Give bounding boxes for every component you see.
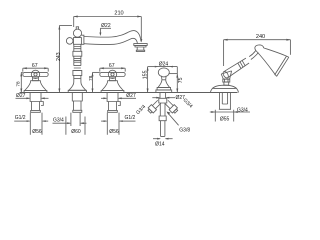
handle unit 1 : dimension 78 <box>16 72 23 92</box>
diverter dimension 75 <box>169 67 184 93</box>
handle unit 1 : shank below deck <box>30 93 43 113</box>
deck line <box>20 92 238 94</box>
spout column base <box>68 82 86 93</box>
svg-text:240: 240 <box>256 34 265 40</box>
handle unit 1 : cross handle <box>23 70 48 78</box>
spout column finial <box>73 27 81 38</box>
spout tube <box>81 31 141 45</box>
diverter bottom pipe upper <box>160 103 165 116</box>
handle unit 1 : dimension Ø56 <box>30 113 42 136</box>
diverter dimension Ø24 <box>155 61 178 67</box>
handle unit 2 : shank below deck <box>107 93 120 113</box>
svg-text:67: 67 <box>32 63 38 69</box>
svg-text:Ø56: Ø56 <box>32 129 42 135</box>
svg-text:G3/4: G3/4 <box>237 107 248 113</box>
handle unit 2 : dimension Ø27 <box>101 93 136 99</box>
svg-text:155: 155 <box>143 70 149 79</box>
handle unit 1 : escutcheon bell <box>24 78 47 93</box>
svg-text:Ø55: Ø55 <box>220 116 230 122</box>
diverter knob <box>156 68 172 93</box>
diverter bottom pipe <box>161 121 165 137</box>
dimension Ø22 (spout tube) <box>99 23 111 36</box>
svg-text:67: 67 <box>109 63 115 69</box>
svg-text:78: 78 <box>16 81 21 87</box>
handle unit 2 : dimension Ø56 <box>107 113 119 136</box>
svg-text:G3/8: G3/8 <box>179 127 190 133</box>
spout outlet <box>134 44 147 52</box>
wall union dimension Ø55 and label G3/4 <box>210 107 250 122</box>
diverter dimension 155 <box>143 67 157 93</box>
spout column body joint <box>74 38 82 45</box>
svg-text:G3/4: G3/4 <box>182 97 194 109</box>
spout column shaft <box>73 44 82 82</box>
svg-text:Ø60: Ø60 <box>71 129 81 135</box>
diverter bottom nut <box>159 116 166 121</box>
hand shower cradle base <box>210 85 238 92</box>
diverter label G3/8 <box>167 112 191 134</box>
svg-text:75: 75 <box>178 77 184 83</box>
dimension 243 (column height) <box>56 26 72 93</box>
handle unit 1 : label G1/2 <box>14 115 48 122</box>
diverter dimension Ø27 <box>152 95 185 101</box>
diverter left outlet arm <box>147 99 162 114</box>
hand shower handle <box>222 58 249 79</box>
hand shower cradle cup <box>221 71 231 85</box>
hand shower dimension 240 <box>224 34 291 66</box>
svg-text:Ø14: Ø14 <box>155 141 165 147</box>
column label G3/4 <box>53 117 87 124</box>
diverter stem below deck <box>160 93 166 99</box>
handle unit 1 : dimension Ø27 <box>16 93 49 99</box>
column dimension Ø60 <box>66 113 85 136</box>
svg-text:G3/4: G3/4 <box>53 117 64 123</box>
svg-text:G1/2: G1/2 <box>125 115 136 121</box>
handle unit 2 : dimension 78 <box>88 72 100 92</box>
svg-text:243: 243 <box>56 52 62 61</box>
handle unit 2 : dimension 67 <box>100 63 125 71</box>
diverter dimension Ø14 <box>153 138 173 148</box>
handle unit 2 : escutcheon bell <box>101 78 124 93</box>
diverter right outlet arm <box>164 99 179 114</box>
spout column left ball <box>66 38 73 45</box>
handle unit 2 : label G1/2 <box>101 115 135 122</box>
svg-text:78: 78 <box>88 75 93 81</box>
svg-text:G3/4: G3/4 <box>135 104 147 116</box>
hand shower neck <box>249 50 258 59</box>
handle unit 2 : cross handle <box>100 70 125 78</box>
wall union shank <box>219 93 231 110</box>
dimension 210 <box>74 10 143 42</box>
column shank below deck <box>72 93 82 113</box>
svg-text:G1/2: G1/2 <box>15 115 26 121</box>
svg-text:210: 210 <box>114 10 123 16</box>
svg-text:Ø56: Ø56 <box>109 129 119 135</box>
handle unit 1 : dimension 67 <box>23 63 48 71</box>
hand shower head <box>255 45 289 76</box>
diverter body <box>159 98 167 103</box>
